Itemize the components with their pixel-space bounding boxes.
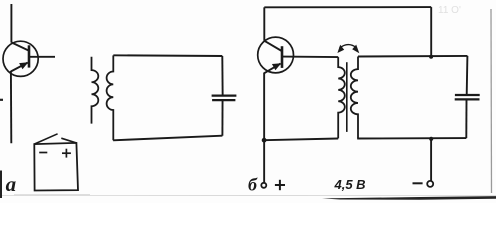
svg-text:4,5 В: 4,5 В	[334, 177, 366, 192]
svg-text:б: б	[248, 175, 258, 195]
svg-text:а: а	[6, 172, 17, 196]
svg-text:11 O': 11 O'	[438, 5, 461, 16]
